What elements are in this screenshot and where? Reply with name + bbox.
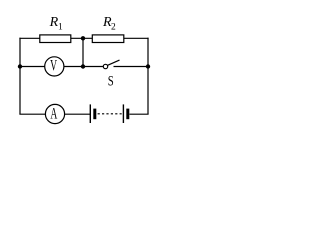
svg-text:A: A [50,105,57,122]
svg-text:V: V [50,57,57,74]
svg-text:1: 1 [58,22,63,32]
svg-text:2: 2 [111,22,116,32]
svg-text:S: S [108,72,114,89]
